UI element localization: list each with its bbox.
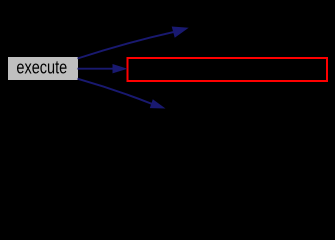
svg-text:execute: execute: [16, 58, 67, 78]
